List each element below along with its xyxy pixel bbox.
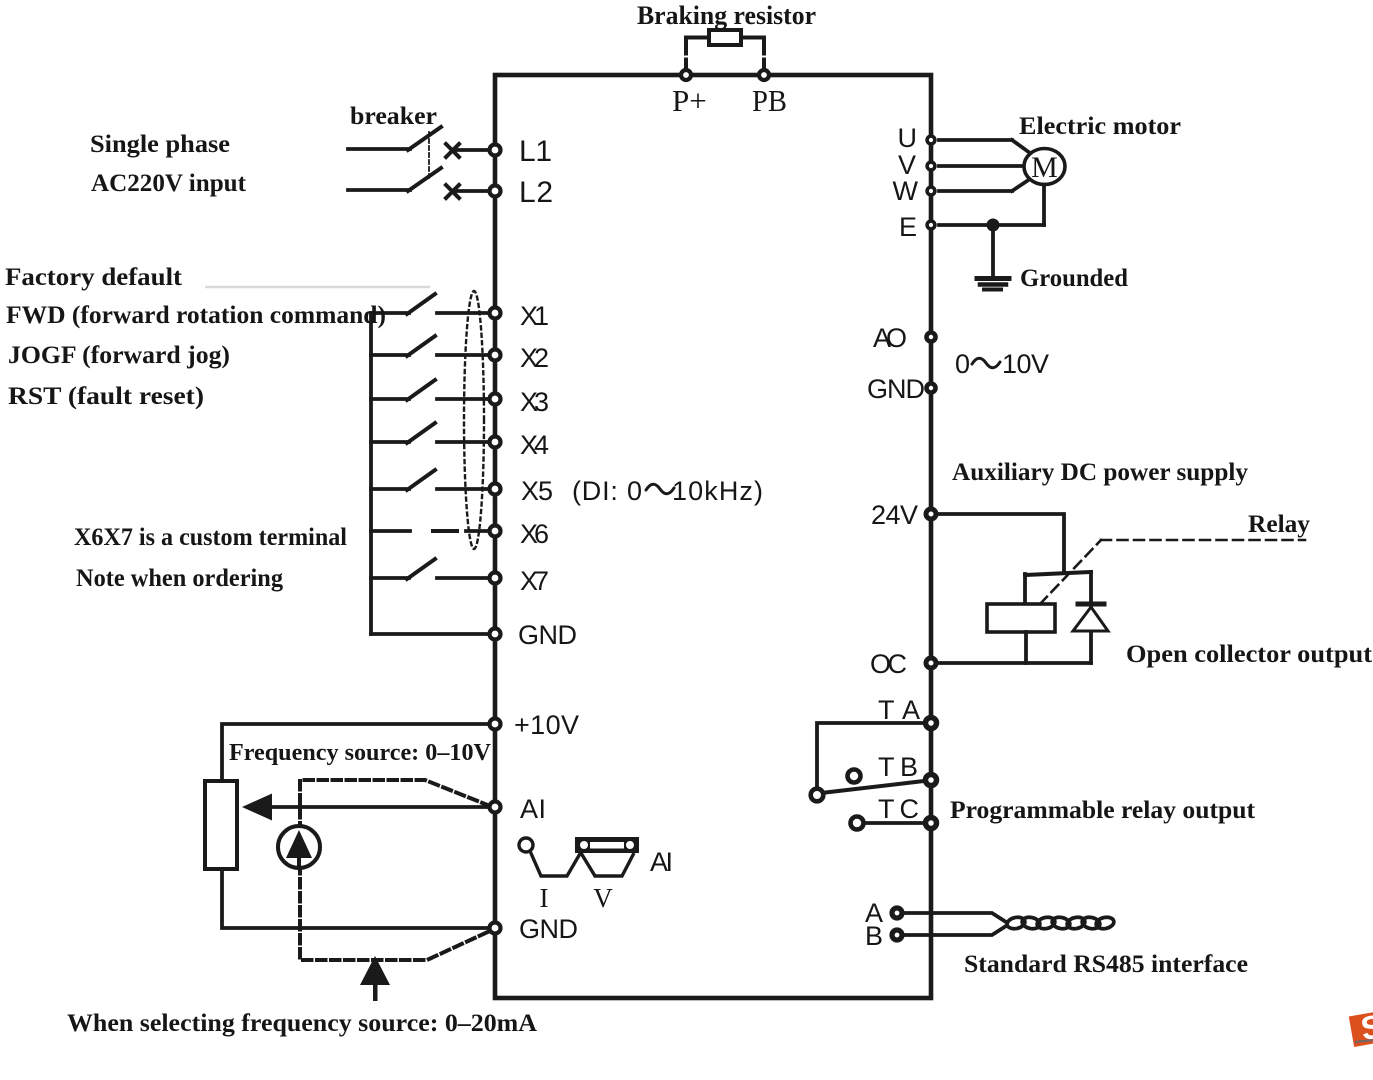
svg-text:JOGF (forward jog): JOGF (forward jog) [8,342,230,369]
svg-text:Electric motor: Electric motor [1019,113,1181,140]
svg-text:X7: X7 [520,566,549,596]
svg-text:GND: GND [519,914,578,944]
svg-text:AI: AI [520,794,546,824]
svg-text:Relay: Relay [1248,511,1310,538]
svg-text:L2: L2 [519,176,553,209]
svg-text:X6X7 is a custom terminal: X6X7 is a custom terminal [74,524,347,551]
svg-text:RST (fault reset): RST (fault reset) [8,383,204,410]
svg-text:Braking resistor: Braking resistor [637,1,816,30]
svg-text:U: U [898,123,918,153]
svg-text:X2: X2 [520,343,549,373]
svg-text:Factory default: Factory default [5,264,183,291]
svg-text:10kHz): 10kHz) [672,476,763,506]
svg-text:PB: PB [752,83,787,118]
svg-text:+10V: +10V [514,710,579,740]
svg-text:Frequency source: 0–10V: Frequency source: 0–10V [229,740,492,766]
svg-text:Single phase: Single phase [90,131,230,158]
svg-text:OC: OC [870,649,907,679]
svg-text:V: V [593,883,613,913]
svg-text:0: 0 [955,349,970,379]
svg-text:X5: X5 [521,476,553,506]
svg-text:M: M [1031,151,1058,184]
svg-text:GND: GND [518,620,577,650]
svg-text:When selecting frequency sourc: When selecting frequency source: 0–20mA [67,1010,537,1037]
svg-text:10V: 10V [1002,349,1049,379]
svg-text:B: B [865,921,883,951]
svg-text:AC220V input: AC220V input [91,170,247,197]
svg-text:X3: X3 [520,387,549,417]
svg-text:Note when ordering: Note when ordering [76,565,283,592]
svg-text:W: W [893,176,919,206]
svg-text:GND: GND [867,374,925,404]
svg-text:Open collector output: Open collector output [1126,641,1373,668]
svg-text:FWD (forward rotation command): FWD (forward rotation command) [6,302,386,329]
svg-text:I: I [540,883,549,913]
svg-text:Programmable relay output: Programmable relay output [950,797,1256,824]
svg-text:Auxiliary DC power supply: Auxiliary DC power supply [952,459,1248,486]
svg-text:E: E [899,212,917,242]
svg-text:breaker: breaker [350,103,437,130]
svg-text:Grounded: Grounded [1020,265,1128,292]
svg-text:L1: L1 [519,135,552,168]
svg-text:X4: X4 [520,430,549,460]
svg-text:AO: AO [873,323,907,353]
svg-text:(DI: 0: (DI: 0 [572,476,642,506]
svg-text:X1: X1 [520,301,549,331]
svg-text:24V: 24V [871,500,918,530]
svg-text:Standard RS485 interface: Standard RS485 interface [964,951,1248,978]
svg-text:X6: X6 [520,519,549,549]
svg-text:AI: AI [650,847,673,877]
svg-text:P+: P+ [672,83,707,118]
